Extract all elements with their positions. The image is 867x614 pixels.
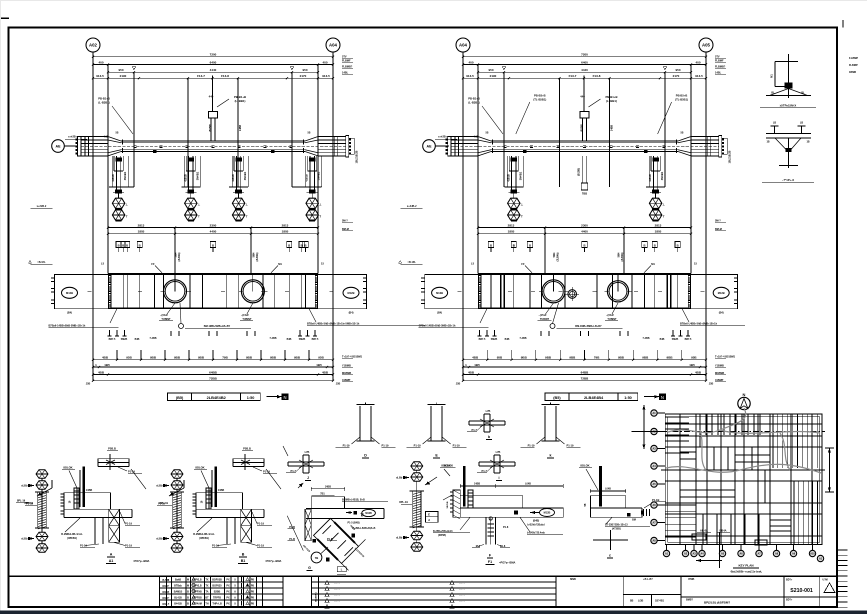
svg-text:9BB: 9BB <box>545 356 552 360</box>
svg-text:-Bad,5dBBr--rcax(11x-brak,: -Bad,5dBBr--rcax(11x-brak, <box>730 571 763 574</box>
svg-text:950: 950 <box>118 68 123 72</box>
left view: strip mid tick marks <box>88 290 92 292</box>
right view: top dimension line 7200 <box>463 56 706 58</box>
left view: title bar arrow and N mark <box>267 396 282 398</box>
svg-text:BMB?: BMB? <box>686 598 693 601</box>
svg-text:950: 950 <box>675 68 680 72</box>
detail F: left leader <box>443 495 452 500</box>
svg-text:P1-5 (B4B): P1-5 (B4B) <box>348 522 360 525</box>
section J: bar with crossing plate <box>288 461 324 463</box>
detail B turnbuckle: bottom hex nuts <box>176 528 178 532</box>
right view: bolt dashes below strip <box>479 330 481 336</box>
svg-text:L7B: L7B <box>486 410 491 413</box>
left view: strip stiffeners <box>122 275 124 309</box>
svg-text:BB: BB <box>630 601 634 603</box>
svg-text:M1: M1 <box>771 74 774 78</box>
right view: oval grid tags M12 <box>432 287 448 298</box>
svg-text:95B: 95B <box>497 356 503 360</box>
svg-text:4400: 4400 <box>210 230 217 234</box>
svg-text:5B: 5B <box>116 133 119 135</box>
detail B: vertical plate below <box>226 518 228 545</box>
svg-text:M12B: M12B <box>436 291 443 295</box>
svg-text:B441B: B441B <box>174 603 182 606</box>
svg-text:79B: 79B <box>222 356 228 360</box>
left view: bolt dashes below strip <box>109 330 111 336</box>
left view: top dimension line 7200 <box>93 56 333 58</box>
svg-text:2170: 2170 <box>673 74 680 78</box>
svg-text:1:50: 1:50 <box>247 396 255 400</box>
detail G: left hatched column <box>305 509 311 540</box>
key plan: gray revision clouds <box>666 408 821 473</box>
svg-text:1:50: 1:50 <box>624 396 632 400</box>
svg-text:B2BB: B2BB <box>214 591 221 594</box>
svg-text:. .. . .: . .. . . <box>459 606 465 609</box>
left view: girder centerline <box>81 145 346 147</box>
detail B section: bar <box>233 458 264 460</box>
svg-text:400: 400 <box>98 60 103 64</box>
svg-text:(2LB4b): (2LB4b) <box>178 252 181 261</box>
svg-text:5TV: 5TV <box>342 56 347 59</box>
svg-text:. .. . .: . .. . . <box>459 582 465 585</box>
svg-text:=PO7y+-BMA: =PO7y+-BMA <box>265 559 282 563</box>
svg-text:41BMP: 41BMP <box>342 379 351 382</box>
svg-text:64BB: 64BB <box>581 370 590 374</box>
svg-text:7B: 7B <box>315 556 319 560</box>
svg-text:THPXLB: THPXLB <box>192 580 202 582</box>
svg-text:9BB: 9BB <box>150 356 157 360</box>
svg-text:5M-?: 5M-? <box>715 220 721 223</box>
svg-text:B: B <box>139 243 141 247</box>
svg-text:x+#JB-x: x+#JB-x <box>438 136 448 139</box>
svg-text:N: N <box>743 392 746 397</box>
svg-text:~(15xF: ~(15xF <box>241 314 249 317</box>
svg-text:2813: 2813 <box>508 223 515 227</box>
svg-text:(B4): (B4) <box>719 312 724 315</box>
svg-text:3M4B1: 3M4B1 <box>243 171 247 180</box>
svg-text:PX: PX <box>226 597 230 600</box>
svg-text:BAM1B: BAM1B <box>174 591 183 594</box>
svg-text:440: 440 <box>580 95 585 99</box>
svg-text:B: B <box>126 243 128 247</box>
detail c: bottom mark <box>610 530 612 545</box>
svg-text:4.1B: 4.1B <box>473 136 478 139</box>
svg-text:3M4B1: 3M4B1 <box>195 171 199 180</box>
svg-text:M: M <box>187 579 189 582</box>
section E: leaders <box>423 437 432 444</box>
left view: girder end plate left <box>78 137 81 157</box>
svg-text:P1-7: P1-7 <box>291 469 297 473</box>
left view: girder stub stiffeners <box>84 137 86 156</box>
svg-text:A: A <box>234 591 236 594</box>
right view: top dimension line 400-6400-400 <box>463 64 706 66</box>
right view: strip thick top and bearing edges <box>478 273 691 275</box>
svg-text:T: T <box>246 214 248 218</box>
svg-text:5B: 5B <box>308 133 311 135</box>
key plan: right dimension arrow <box>829 448 831 492</box>
svg-text:. .. . .: . .. . . <box>334 606 340 609</box>
svg-text:B: B <box>643 243 645 247</box>
svg-text:PX: PX <box>226 585 230 588</box>
svg-text:LB: LB <box>800 122 803 125</box>
svg-text:B+BB+LB4B+B,B+B: B+BB+LB4B+B,B+B <box>353 527 376 530</box>
svg-text:9BB: 9BB <box>569 356 576 360</box>
svg-text:41B1B: 41B1B <box>649 174 652 182</box>
detail G: beam band <box>306 508 384 510</box>
svg-text:41B1B: 41B1B <box>306 174 309 182</box>
right view: dim extension lines <box>503 72 505 187</box>
svg-text:2LB4E4B4: 2LB4E4B4 <box>584 395 604 400</box>
svg-text:TX: TX <box>205 579 208 582</box>
svg-text:IYMB: IYMB <box>688 578 694 581</box>
svg-text:BTBab: BTBab <box>174 585 182 588</box>
svg-text:LB: LB <box>773 122 776 125</box>
svg-text:≤LBb: ≤LBb <box>396 477 403 480</box>
svg-text:400: 400 <box>322 60 327 64</box>
svg-text:1805: 1805 <box>138 230 145 234</box>
svg-text:1B5: 1B5 <box>689 363 695 367</box>
svg-text:M: M <box>187 585 189 588</box>
svg-text:2813: 2813 <box>655 223 662 227</box>
right view: center circled annotation <box>550 324 555 329</box>
svg-text:14BB: 14BB <box>218 489 225 492</box>
svg-text:9BB: 9BB <box>270 356 277 360</box>
svg-text:2300: 2300 <box>210 223 217 227</box>
section b: bar with crossing plate <box>469 420 505 422</box>
svg-text:950: 950 <box>302 68 307 72</box>
detail F: inner plate <box>468 490 473 508</box>
weld detail 1 <box>788 54 790 98</box>
svg-text:B1: B1 <box>241 559 246 563</box>
svg-text:≤LBb: ≤LBb <box>21 485 28 488</box>
svg-text:3M4B1: 3M4B1 <box>317 171 321 180</box>
right view: midspan top plate detail <box>583 76 585 112</box>
svg-text:1805: 1805 <box>282 230 289 234</box>
svg-text:E: E <box>428 513 430 517</box>
left view: grid line A04 <box>332 52 334 381</box>
svg-text:4BB: 4BB <box>472 356 479 360</box>
svg-text:BD?+: BD?+ <box>786 579 793 582</box>
left view: grid line A02 <box>92 52 94 381</box>
right view: midspan bottom stub <box>582 156 584 183</box>
key plan: dashed centerlines <box>661 431 825 433</box>
detail A section leader <box>131 469 146 489</box>
svg-text:6400: 6400 <box>210 60 217 64</box>
detail c: thick anchor bar <box>599 466 602 507</box>
key plan: bottom arrow <box>696 560 722 562</box>
svg-text:1BL21B.2B: 1BL21B.2B <box>729 150 732 163</box>
left view: girder end plate right with splice <box>346 136 349 157</box>
svg-text:(B5): (B5) <box>176 396 184 400</box>
svg-text:4BB: 4BB <box>695 370 702 374</box>
svg-text:M1: M1 <box>651 262 655 266</box>
left view: top dimension line 400-6400-400 <box>93 64 333 66</box>
svg-text:KEY PLAN: KEY PLAN <box>738 564 753 568</box>
right view: stiffener tag row <box>490 248 492 253</box>
svg-text:41B1B: 41B1B <box>112 174 115 182</box>
detail A section: bar <box>98 458 129 460</box>
svg-text:~(15xF: ~(15xF <box>160 314 168 317</box>
svg-text:9BB: 9BB <box>198 356 205 360</box>
right view: beam strip outline <box>425 275 738 309</box>
right view: grid bubble A05 <box>699 38 713 52</box>
left view: strip end bolt ticks <box>51 277 55 279</box>
detail F: beam bracket with post <box>460 496 522 508</box>
svg-text:5B: 5B <box>585 503 587 506</box>
binding ticks right edge <box>837 549 848 551</box>
svg-text:J5B: J5B <box>456 383 461 386</box>
svg-text:PB: PB <box>251 592 255 594</box>
svg-text:14BB: 14BB <box>239 125 242 131</box>
svg-text:BB7.5: BB7.5 <box>685 338 692 341</box>
svg-text:M12B: M12B <box>544 512 551 515</box>
svg-text:P1-8: P1-8 <box>503 526 509 529</box>
svg-text:BP(2LB) 大BFBM?: BP(2LB) 大BFBM? <box>704 599 730 604</box>
svg-text:THP+LB: THP+LB <box>212 603 222 606</box>
detail c: dims above <box>590 490 625 492</box>
detail B turnbuckle: top hex nuts <box>171 470 183 479</box>
svg-text:4400: 4400 <box>581 230 588 234</box>
svg-text:=B.1FL: =B.1FL <box>37 261 46 264</box>
svg-text:913.5: 913.5 <box>466 74 474 78</box>
right view: top dimension line detail <box>463 77 706 79</box>
svg-text:B: B <box>288 243 290 247</box>
detail B: x-column <box>241 509 252 542</box>
svg-text:P1-19: P1-19 <box>125 544 132 548</box>
svg-text:7-4BB: 7-4BB <box>520 337 527 340</box>
left view: mid dimension lines <box>108 227 318 229</box>
svg-text:B: B <box>513 243 515 247</box>
detail G: oval tag M10 <box>362 509 376 516</box>
svg-text:41B1B: 41B1B <box>507 174 510 182</box>
svg-text:95B: 95B <box>691 356 697 360</box>
svg-text:5M2B: 5M2B <box>299 338 306 341</box>
title block: weld legend table <box>159 576 161 607</box>
mid turnbuckle: rod body hatched <box>413 491 421 527</box>
svg-text:B: B <box>490 243 492 247</box>
svg-text:PB-B1+B: PB-B1+B <box>468 97 480 101</box>
detail F: dims above <box>460 485 495 487</box>
right view: bottom dimension stack <box>486 350 488 360</box>
svg-text:P1-7: P1-7 <box>482 469 488 473</box>
svg-text:8OLOK: 8OLOK <box>580 464 589 468</box>
svg-text:MNB: MNB <box>570 578 576 581</box>
svg-text:400: 400 <box>468 60 473 64</box>
svg-text:F13-7: F13-7 <box>197 74 205 78</box>
svg-text:7B1: 7B1 <box>320 493 325 496</box>
svg-text:T: T <box>126 214 128 218</box>
svg-text:M12B: M12B <box>348 291 355 295</box>
svg-text:FLBMF: FLBMF <box>715 60 724 63</box>
svg-text:B: B <box>529 243 531 247</box>
svg-text:440: 440 <box>209 95 214 99</box>
svg-text:95B: 95B <box>318 356 324 360</box>
svg-text:AE: AE <box>56 145 62 149</box>
svg-text:72BB: 72BB <box>581 377 590 381</box>
mid turnbuckle: bottom hex nuts <box>416 527 418 531</box>
svg-text:≤LBb: ≤LBb <box>21 538 28 541</box>
key plan: small notches <box>692 534 706 540</box>
svg-text:T: T <box>521 214 523 218</box>
svg-text:PB-B1+B: PB-B1+B <box>98 97 110 101</box>
svg-text:M10B: M10B <box>365 512 372 515</box>
svg-text:5B25B: 5B25B <box>447 501 449 508</box>
svg-text:B: B <box>187 597 189 600</box>
svg-text:913.5: 913.5 <box>322 74 330 78</box>
svg-text:B4B: B4B <box>287 338 292 341</box>
svg-text:BT: BT <box>205 597 209 600</box>
svg-text:L7B: L7B <box>305 451 310 454</box>
detail B: leader arrow to turnbuckle <box>169 488 184 496</box>
svg-text:P1-19: P1-19 <box>382 443 389 447</box>
svg-text:~(15xF: ~(15xF <box>606 314 614 317</box>
svg-text:J5B: J5B <box>86 383 91 386</box>
svg-text:14BB: 14BB <box>611 125 614 131</box>
svg-text:FF: FF <box>521 262 525 266</box>
svg-text:T: T <box>663 214 665 218</box>
right view: strip bearing hatch columns <box>479 275 481 308</box>
svg-text:7-4BB: 7-4BB <box>150 337 157 340</box>
svg-text:2170: 2170 <box>300 74 307 78</box>
section D: column bars <box>359 406 361 441</box>
svg-text:(L-B3B1): (L-B3B1) <box>98 100 109 104</box>
svg-text:4440: 4440 <box>210 68 217 72</box>
svg-text:B: B <box>187 603 189 606</box>
detail B: left edge bolt ticks <box>193 493 197 495</box>
svg-text:+B L-B?: +B L-B? <box>643 578 653 581</box>
right view: view title bar <box>545 393 638 400</box>
svg-text:2813: 2813 <box>282 223 289 227</box>
left view: dim extension lines <box>133 72 135 187</box>
key plan: outline <box>665 414 822 544</box>
svg-text:T: T <box>319 214 321 218</box>
svg-text:64BB: 64BB <box>209 370 218 374</box>
svg-text:2LB4E4B2: 2LB4E4B2 <box>207 395 227 400</box>
svg-text:PB: PB <box>251 586 255 588</box>
bottom dark strip <box>0 611 867 614</box>
detail G: rotated brace connection <box>311 488 344 490</box>
svg-text:8OLOK: 8OLOK <box>195 466 204 470</box>
detail A: vertical plate below <box>94 518 96 545</box>
detail A: hanger rod thick bar <box>82 466 85 507</box>
right view: strip mid tick marks <box>458 290 462 292</box>
svg-text:913.5: 913.5 <box>96 74 104 78</box>
svg-text:M1: M1 <box>278 262 282 266</box>
svg-text:B4B: B4B <box>135 338 140 341</box>
svg-text:5M2B: 5M2B <box>491 338 498 341</box>
detail c: right beam bracket <box>590 496 625 508</box>
right view: centerline bolt ticks <box>504 144 507 146</box>
svg-text:FLBMB?: FLBMB? <box>715 66 726 69</box>
svg-text:P1-19: P1-19 <box>567 443 574 447</box>
svg-text:J: J <box>307 476 309 480</box>
svg-text:x+#JB-2: x+#JB-2 <box>37 205 47 208</box>
detail F: post below with bolts <box>485 517 487 544</box>
svg-text:F13-7: F13-7 <box>569 74 577 78</box>
key plan: major grid lines <box>665 414 822 544</box>
svg-text:BB4A: BB4A <box>719 529 726 533</box>
svg-text:(2LB4b): (2LB4b) <box>557 252 560 261</box>
left view: grid bubble AE <box>52 140 65 153</box>
weld detail 2 <box>771 125 779 127</box>
svg-text:D: D <box>364 454 367 458</box>
svg-text:BM-M: BM-M <box>342 228 349 231</box>
detail G: diamond brace <box>314 518 359 563</box>
svg-text:41B1B: 41B1B <box>232 174 235 182</box>
left view: stiffener tag row <box>122 248 124 253</box>
svg-text:1B?4B1: 1B?4B1 <box>655 600 665 603</box>
svg-text:B: B <box>122 243 124 247</box>
detail B: small plates inside <box>206 488 211 509</box>
svg-text:F1: F1 <box>488 560 492 564</box>
svg-text:BM-M: BM-M <box>715 228 722 231</box>
svg-text:1B5: 1B5 <box>474 363 480 367</box>
svg-text:95B: 95B <box>126 356 132 360</box>
svg-text:(L=BB1): (L=BB1) <box>235 99 246 103</box>
svg-text:5B: 5B <box>681 133 684 135</box>
left view: grid bubble A02 <box>86 38 100 52</box>
svg-text:9BB: 9BB <box>667 356 674 360</box>
svg-text:N: N <box>661 395 664 400</box>
svg-text:1805: 1805 <box>655 230 662 234</box>
svg-text:TUBINT: TUBINT <box>161 318 171 321</box>
svg-text:P5B.B: P5B.B <box>243 447 251 451</box>
svg-text:14BB: 14BB <box>474 483 480 486</box>
svg-text:4.1B: 4.1B <box>103 136 108 139</box>
svg-text:L7B: L7B <box>496 451 501 454</box>
right view: strip end bolt ticks <box>421 277 425 279</box>
svg-text:PB: PB <box>251 580 255 582</box>
svg-text:TUBINT: TUBINT <box>607 318 617 321</box>
right view: grid bubble A04 <box>456 38 470 52</box>
section D: leaders <box>352 437 361 444</box>
svg-text:5B: 5B <box>486 133 489 135</box>
svg-text:1BMB: 1BMB <box>849 71 856 74</box>
svg-text:L04B: L04B <box>605 488 611 491</box>
svg-text:4BB: 4BB <box>468 370 475 374</box>
svg-text:L04B: L04B <box>525 483 531 486</box>
svg-text:(B15B): (B15B) <box>209 124 212 132</box>
svg-text:FLBMB?: FLBMB? <box>342 66 353 69</box>
svg-text:T+19?-4 B51BM1: T+19?-4 B51BM1 <box>342 356 363 359</box>
svg-text:=PO7y+-BMA: =PO7y+-BMA <box>133 559 150 563</box>
svg-text:A: A <box>110 553 113 557</box>
detail G: circle tag <box>311 552 322 563</box>
svg-text:P1-19: P1-19 <box>257 522 264 526</box>
svg-text:~(15xF: ~(15xF <box>539 314 547 317</box>
left view: hanger posts with turnbuckle nuts <box>111 156 113 187</box>
svg-text:14BL: 14BL <box>342 72 349 75</box>
svg-text:T: T <box>198 214 200 218</box>
left view: oval grid tags M12 <box>62 287 78 298</box>
right view: web holes <box>542 280 565 303</box>
detail A: leader arrow to turnbuckle <box>37 488 52 496</box>
detail B: hanger rod thick bar <box>214 466 217 507</box>
svg-text:14BB: 14BB <box>325 486 331 489</box>
right view: mid dimension lines <box>478 227 691 229</box>
detail A: x-column <box>109 509 120 542</box>
svg-text:9BB: 9BB <box>246 356 253 360</box>
svg-text:(#735B): (#735B) <box>612 528 621 531</box>
svg-text:8OLOK: 8OLOK <box>63 466 72 470</box>
svg-text:1B5: 1B5 <box>104 363 110 367</box>
svg-text:B-2MB+L4B1B, B+B: B-2MB+L4B1B, B+B <box>342 498 365 501</box>
svg-text:(B4B): (B4B) <box>533 520 540 523</box>
detail G: bottom tag boxes <box>337 567 346 572</box>
svg-text:(2LB4b): (2LB4b) <box>621 252 624 261</box>
svg-text:M12B: M12B <box>66 291 73 295</box>
svg-text:PB-B5+B: PB-B5+B <box>676 94 688 98</box>
svg-text:BOP535: BOP535 <box>212 585 222 588</box>
